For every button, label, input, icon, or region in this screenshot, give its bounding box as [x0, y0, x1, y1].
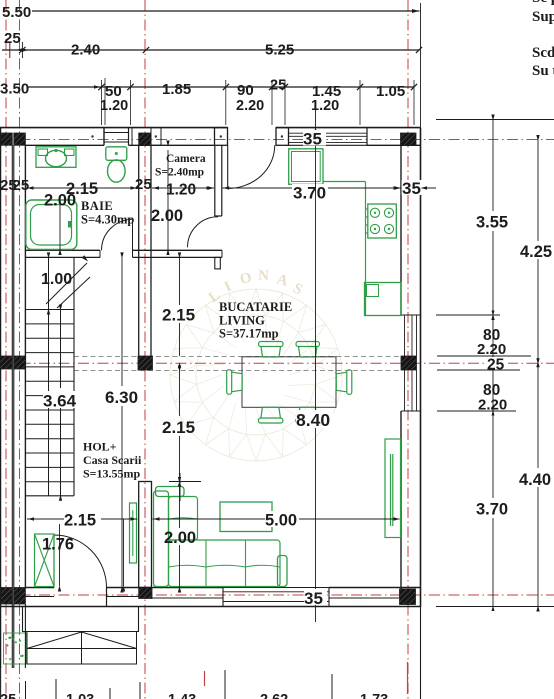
top wall hatch at camera wall — [139, 133, 151, 145]
right wall window lower 80 glazing — [404, 370, 406, 411]
top door swing arc — [228, 145, 275, 188]
svg-text:3.64: 3.64 — [43, 392, 77, 411]
dim 35 top wall — [315, 110, 317, 128]
left wall B inner — [24, 145, 26, 587]
top wall right section inner — [367, 144, 421, 146]
stairs outline — [25, 495, 74, 497]
right side horizontal extension lines — [436, 119, 554, 121]
svg-text:3.55: 3.55 — [476, 214, 508, 232]
svg-text:BAIE: BAIE — [81, 199, 113, 213]
svg-text:2.20: 2.20 — [236, 98, 264, 114]
bath vertical dim 2.00 — [59, 196, 61, 250]
top wall hatch left A — [0, 133, 12, 145]
dim row3 line 3.50 etc — [28, 86, 414, 88]
dim 1.76 lines — [59, 524, 61, 586]
bottom wall outer line — [0, 606, 421, 608]
bath-camera wall (x138-151) — [138, 145, 140, 356]
svg-text:Camera: Camera — [166, 153, 206, 165]
dining table — [242, 357, 336, 408]
dim row1 5.50 line — [32, 10, 420, 12]
chair left — [227, 370, 243, 395]
svg-text:BUCATARIE: BUCATARIE — [219, 300, 292, 314]
bottom wall hatch right corner — [400, 589, 416, 605]
dim row2 line 2.40 / 5.25 — [2, 49, 420, 51]
chair top 2 — [296, 342, 320, 358]
entrance door swing arc — [54, 535, 107, 588]
svg-text:2.15: 2.15 — [162, 418, 195, 437]
bottom wall living solid left segment — [152, 587, 223, 589]
red axis horizontal bottom wall — [0, 594, 554, 596]
svg-text:25: 25 — [270, 78, 286, 94]
left wall mid hatch B — [14, 356, 25, 369]
right wall inner lower — [400, 411, 402, 589]
ext line for 2.00 top — [169, 481, 201, 483]
svg-text:S=13.55mp: S=13.55mp — [83, 467, 141, 481]
left wall mid hatch A — [0, 356, 12, 369]
dim 35 bottom wall — [315, 572, 317, 588]
stair 3.64 dim line — [60, 310, 62, 389]
living dim line y519 5.00 — [153, 518, 400, 520]
svg-text:35: 35 — [303, 130, 322, 149]
top wall inner line left section — [25, 144, 104, 146]
svg-text:3.70: 3.70 — [476, 501, 508, 519]
stairs mid rail line — [48, 257, 50, 495]
camera door swing arc — [187, 217, 218, 248]
bottom wall hatch left B — [14, 588, 26, 605]
bathtub inner — [31, 205, 72, 246]
svg-text:1.85: 1.85 — [162, 81, 191, 98]
dim row2 ext ticks — [9, 42, 11, 58]
svg-text:Sc p: Sc p — [532, 0, 554, 6]
svg-text:1.00: 1.00 — [41, 271, 72, 288]
dim line y188 kitchen 3.70 — [195, 187, 214, 189]
dim 3.70 kitchen text — [292, 184, 328, 199]
svg-text:2.15: 2.15 — [162, 306, 195, 325]
porch steps block — [27, 632, 137, 665]
svg-text:4.25: 4.25 — [520, 243, 552, 261]
wall block dots — [91, 135, 93, 137]
bath and camera bottom wall — [25, 249, 100, 251]
svg-text:1.73: 1.73 — [360, 692, 388, 699]
sink counter — [36, 147, 76, 168]
svg-text:25: 25 — [13, 177, 30, 194]
hol dim line y519 — [27, 518, 138, 520]
svg-text:S=2.40mp: S=2.40mp — [155, 167, 204, 179]
svg-text:2.20: 2.20 — [477, 341, 506, 358]
chair bottom 1 — [258, 407, 283, 423]
bottom dimension ticks — [25, 681, 27, 699]
fridge — [365, 283, 402, 316]
living 2.00 dim line — [179, 473, 181, 501]
bottom wall living solid right segment — [329, 587, 421, 589]
svg-text:6.30: 6.30 — [105, 388, 138, 407]
svg-text:3.70: 3.70 — [293, 184, 326, 203]
svg-text:25: 25 — [0, 692, 16, 699]
svg-text:N: N — [258, 268, 270, 284]
dim 6.30 line — [121, 257, 123, 386]
top wall small window 50 — [104, 132, 129, 134]
right wall inner upper — [400, 145, 402, 315]
bottom wall door jamb right piece — [107, 587, 153, 589]
svg-text:2.15: 2.15 — [64, 512, 96, 530]
svg-text:1.76: 1.76 — [42, 536, 74, 554]
svg-text:Scd: Scd — [532, 45, 554, 61]
left wall A inner — [11, 145, 13, 668]
dim 3.64 text — [43, 391, 79, 408]
svg-text:4.40: 4.40 — [519, 471, 551, 489]
dim row3 extension lines — [101, 80, 103, 125]
svg-text:S=37.17mp: S=37.17mp — [219, 327, 279, 341]
red axis horizontal top wall — [0, 139, 554, 141]
sofa bottom seats — [169, 540, 281, 587]
svg-text:3.50: 3.50 — [0, 81, 29, 98]
red axis vertical A left — [5, 0, 7, 699]
dim column x179 ticks and texts — [179, 257, 181, 305]
stairs steps — [25, 309, 74, 311]
right side dim 3.55 line — [492, 120, 494, 212]
bottom wall hatch mid (hol/living wall) — [139, 588, 152, 599]
top wall left end cap — [103, 128, 105, 146]
entrance door leaf — [53, 534, 55, 588]
right side dim 80/2.20/25/80/2.20 column — [492, 315, 494, 356]
chair right — [336, 370, 352, 395]
right wall window upper 80 glazing — [404, 315, 406, 356]
watermark letters LIONAS — [206, 268, 305, 306]
sink basin — [46, 150, 67, 166]
toilet tank — [106, 147, 127, 161]
kitchen counter front edge lines — [323, 181, 366, 183]
right wall hatch mid — [401, 356, 417, 370]
svg-text:Sup: Sup — [532, 9, 554, 25]
toilet bowl — [108, 160, 126, 182]
white block with dot right of camera hatch — [151, 128, 161, 146]
stove — [368, 204, 397, 238]
door jamb block left (entry to living) — [215, 128, 228, 146]
red axis horizontal middle — [0, 362, 554, 364]
bottom window 223-329 glazing — [223, 591, 329, 593]
radiator hol wall — [130, 503, 137, 563]
svg-text:2.00: 2.00 — [164, 529, 196, 547]
left wall A outer — [0, 128, 2, 668]
svg-text:1.43: 1.43 — [168, 692, 196, 699]
svg-text:35: 35 — [304, 589, 323, 608]
right side dim 4.25/4.40 line — [537, 140, 539, 241]
bottom right corner lines below — [420, 607, 422, 699]
svg-text:1.05: 1.05 — [376, 83, 405, 100]
sofa right arm — [278, 556, 288, 587]
svg-text:1.20: 1.20 — [166, 182, 196, 199]
top window 288-367 glazing — [289, 132, 368, 134]
svg-text:Casa Scarii: Casa Scarii — [83, 453, 142, 467]
wardrobe with X — [35, 534, 55, 587]
chair top 1 — [259, 342, 284, 358]
mid beam dashed lines — [74, 356, 401, 358]
top wall hatch right corner — [401, 133, 417, 145]
chair bottom 2 — [296, 407, 320, 423]
svg-text:25: 25 — [4, 30, 21, 47]
svg-text:2.40: 2.40 — [71, 42, 100, 59]
svg-text:90: 90 — [237, 82, 254, 99]
svg-text:25: 25 — [135, 176, 152, 193]
top wall pillar 128-161 lines — [128, 128, 130, 146]
door jamb block right — [276, 128, 289, 146]
bathtub outer — [26, 200, 77, 250]
svg-text:35: 35 — [402, 179, 421, 198]
sofa top arm — [156, 487, 185, 497]
svg-text:5.50: 5.50 — [2, 4, 31, 21]
hol-living wall hatch mid — [138, 356, 153, 370]
hol-living wall lower solid — [139, 482, 152, 588]
kitchen counter top block — [289, 149, 323, 185]
dim row1 end tick vertical — [420, 3, 422, 128]
svg-text:5.25: 5.25 — [265, 42, 294, 59]
svg-text:2.00: 2.00 — [151, 207, 183, 225]
coffee table — [220, 502, 272, 532]
porch slab — [23, 607, 139, 632]
svg-text:Su t: Su t — [532, 63, 554, 79]
stairs break arrow on landing — [46, 263, 87, 304]
svg-text:1.03: 1.03 — [66, 692, 94, 699]
svg-text:1.20: 1.20 — [100, 98, 128, 114]
bottom wall top line left section — [25, 587, 54, 589]
svg-text:5.00: 5.00 — [265, 512, 297, 530]
long vertical line x315 — [315, 160, 317, 572]
dim line y188 bath 2.15 — [27, 187, 138, 189]
svg-text:HOL+: HOL+ — [83, 440, 117, 454]
top wall outer line — [0, 127, 228, 129]
dim 8.40 text — [296, 410, 333, 428]
top door leaf (kitchen entry) — [227, 145, 229, 187]
camera right wall thin — [214, 145, 216, 216]
radiator right wall — [385, 439, 401, 538]
svg-text:8.40: 8.40 — [296, 410, 330, 430]
svg-text:S=4.30mp: S=4.30mp — [81, 213, 134, 227]
sofa left back — [154, 491, 169, 587]
svg-text:2.62: 2.62 — [260, 692, 288, 699]
left wall lines below porch — [0, 668, 2, 699]
top wall hatch left B — [14, 133, 26, 145]
svg-text:LIVING: LIVING — [219, 314, 265, 328]
left wall B outer — [13, 145, 15, 668]
svg-text:25: 25 — [487, 357, 505, 374]
camera vertical dim 2.00 — [167, 150, 169, 250]
dim line y188 camera 1.20 — [152, 187, 214, 189]
sofa left seats — [169, 497, 198, 541]
right wall outer — [420, 128, 422, 607]
red axis vertical C (bath/camera wall) — [144, 0, 146, 699]
red axis vertical B left — [19, 0, 21, 699]
red axis vertical D (right wall) — [407, 0, 409, 699]
watermark seal — [170, 289, 342, 461]
bottom wall hatch left A — [1, 588, 12, 605]
bathroom door swing arc — [102, 219, 133, 250]
dim 35 right wall — [385, 187, 401, 189]
green speckle block — [4, 633, 27, 664]
stub below camera wall — [215, 257, 221, 269]
